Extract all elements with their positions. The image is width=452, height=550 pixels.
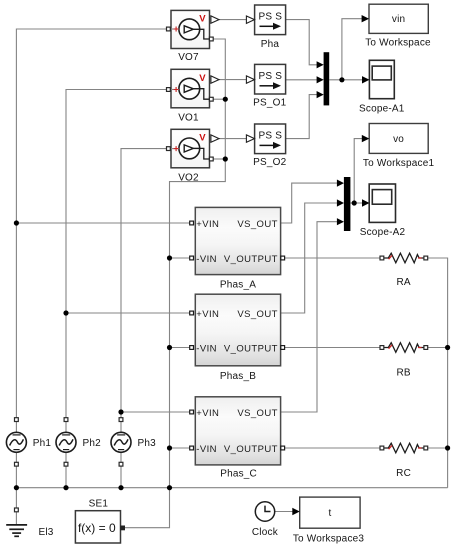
svg-text:Ph2: Ph2 <box>83 438 102 449</box>
PS-Simulink converter Pha <box>246 5 285 35</box>
wire Phas_A -VIN <box>170 257 190 259</box>
wire Phas_B -VIN <box>170 347 190 349</box>
To Workspace vin <box>362 4 429 33</box>
PS-Simulink converter PS_O2 <box>246 124 285 154</box>
wire VO7 to Pha <box>219 19 246 21</box>
wire branch to vin To Workspace <box>342 19 362 80</box>
svg-text:V_OUTPUT: V_OUTPUT <box>224 254 278 265</box>
wire VO1 to PS_O1 <box>219 79 246 81</box>
svg-text:PS_O2: PS_O2 <box>253 157 286 168</box>
wire VO2 to PS_O2 <box>219 138 246 140</box>
junction node Ph1 ground <box>14 485 19 490</box>
wire Mux1 output to Scope-A1 <box>329 79 362 81</box>
svg-text:+VIN: +VIN <box>196 309 219 320</box>
wire VO2 bottom port to negative bus <box>213 158 225 160</box>
wire VO2 input from node C vertical <box>121 149 167 418</box>
svg-text:PS S: PS S <box>259 71 283 82</box>
wire Phas_C -VIN <box>170 447 190 449</box>
svg-text:To Workspace1: To Workspace1 <box>363 158 435 169</box>
svg-text:Scope-A2: Scope-A2 <box>360 227 406 238</box>
ground El3 <box>6 508 27 536</box>
junction node Phas_B +VIN <box>63 310 68 315</box>
svg-text:PS_O1: PS_O1 <box>253 98 286 109</box>
wire Phas_C V_OUTPUT to RC <box>285 447 381 449</box>
AC source Ph2 <box>56 418 76 466</box>
svg-text:VO7: VO7 <box>178 52 199 63</box>
wire VO7 input from node A vertical <box>16 29 166 418</box>
svg-text:RA: RA <box>396 277 410 288</box>
svg-text:-VIN: -VIN <box>196 254 217 265</box>
svg-text:+VIN: +VIN <box>196 408 219 419</box>
voltage sensor VO7 <box>167 10 220 48</box>
svg-text:V_OUTPUT: V_OUTPUT <box>224 444 278 455</box>
mux Mux2 <box>337 177 351 231</box>
wire Phas_B VS_OUT to Mux2 input 2 <box>281 203 338 313</box>
svg-text:VS_OUT: VS_OUT <box>237 309 277 320</box>
junction node Phas_A -VIN <box>167 255 172 260</box>
svg-text:To Workspace3: To Workspace3 <box>293 534 365 545</box>
subsystem Phas_C <box>190 397 285 465</box>
AC source Ph1 <box>6 418 26 466</box>
mux Mux1 <box>317 52 330 105</box>
svg-text:t: t <box>329 508 332 519</box>
PS-Simulink converter PS_O1 <box>246 64 285 94</box>
svg-text:V: V <box>199 14 206 25</box>
svg-text:Scope-A1: Scope-A1 <box>359 104 405 115</box>
svg-text:Phas_B: Phas_B <box>220 371 256 382</box>
svg-text:Phas_A: Phas_A <box>220 280 256 291</box>
wire Phas_A +VIN <box>16 222 189 224</box>
svg-text:PS S: PS S <box>259 131 283 142</box>
To Workspace1 vo <box>362 124 428 154</box>
junction node negative bus ground bus crossing <box>167 485 172 490</box>
svg-text:VS_OUT: VS_OUT <box>237 408 277 419</box>
svg-text:SE1: SE1 <box>89 499 109 510</box>
wire Phas_B +VIN <box>66 312 190 314</box>
voltage sensor VO2 <box>167 129 220 168</box>
junction node Ph2 ground <box>63 485 68 490</box>
junction node RC right <box>445 445 450 450</box>
svg-text:V: V <box>199 73 206 84</box>
junction node Phas_B -VIN <box>167 345 172 350</box>
wire Mux2 output to Scope-A2 <box>350 202 362 204</box>
scope Scope-A2 <box>362 184 396 222</box>
voltage sensor VO1 <box>167 69 220 108</box>
wire Phas_A V_OUTPUT to RA <box>285 257 381 259</box>
svg-text:-VIN: -VIN <box>196 444 217 455</box>
wire branch to vo To Workspace1 <box>354 139 362 203</box>
wire PS_O1 to Mux1 input 2 <box>286 79 317 81</box>
wire VO1 input from node B vertical <box>66 90 167 418</box>
svg-text:vo: vo <box>393 134 404 145</box>
junction node Ph3 ground <box>118 485 123 490</box>
wire Ph1 bottom to ground bus <box>15 466 17 488</box>
junction node mux1 output branch <box>339 77 344 82</box>
wire PS_O2 to Mux1 input 3 <box>286 95 317 139</box>
svg-text:RC: RC <box>396 468 411 479</box>
subsystem Phas_A <box>190 207 285 274</box>
svg-text:-VIN: -VIN <box>196 343 217 354</box>
wire Phas_C VS_OUT to Mux2 input 3 <box>281 222 338 412</box>
wire ground port to ground symbol <box>15 512 17 525</box>
resistor RB <box>380 343 428 353</box>
svg-text:V_OUTPUT: V_OUTPUT <box>224 343 278 354</box>
wire Ph3 bottom to ground bus <box>120 466 122 488</box>
svg-text:Phas_C: Phas_C <box>220 469 257 480</box>
To Workspace3 t <box>292 497 360 528</box>
wire Phas_A VS_OUT to Mux2 input 1 <box>281 183 338 223</box>
junction node Phas_C +VIN <box>118 409 123 414</box>
junction node mux2 output branch <box>352 200 357 205</box>
clock Clock <box>255 502 274 521</box>
svg-text:f(x) = 0: f(x) = 0 <box>78 521 116 535</box>
svg-text:VO2: VO2 <box>178 173 199 184</box>
svg-text:V: V <box>199 133 206 144</box>
junction node Phas_A +VIN <box>14 220 19 225</box>
svg-text:+VIN: +VIN <box>196 219 219 230</box>
scope Scope-A1 <box>362 60 394 98</box>
svg-text:Clock: Clock <box>252 527 279 538</box>
junction node VO2 bottom <box>223 156 228 161</box>
svg-text:Pha: Pha <box>261 39 280 50</box>
wire negative bus from VO7 bottom to SE1 <box>125 39 226 528</box>
svg-text:Ph3: Ph3 <box>138 438 157 449</box>
wire Phas_B V_OUTPUT to RB <box>285 347 381 349</box>
svg-text:PS S: PS S <box>259 12 283 23</box>
junction node VO1 bottom <box>223 97 228 102</box>
wire ground bus <box>16 487 447 489</box>
wire Pha to Mux1 input 1 <box>286 20 317 65</box>
svg-text:Ph1: Ph1 <box>33 438 52 449</box>
svg-text:VO1: VO1 <box>178 113 199 124</box>
junction node negative bus at ground bus <box>167 445 172 450</box>
junction node RB right <box>445 345 450 350</box>
wire Phas_C +VIN <box>121 411 190 413</box>
wire Clock to To Workspace3 <box>275 511 293 513</box>
wire ground bus to ground El3 <box>15 488 17 508</box>
svg-text:El3: El3 <box>39 527 54 538</box>
svg-text:VS_OUT: VS_OUT <box>237 219 277 230</box>
solver configuration SE1 <box>75 511 124 543</box>
svg-text:To Workspace: To Workspace <box>365 38 431 49</box>
svg-text:vin: vin <box>392 14 405 25</box>
svg-text:RB: RB <box>396 368 410 379</box>
wire VO1 bottom port to negative bus <box>213 98 225 100</box>
AC source Ph3 <box>111 418 131 466</box>
wire Ph2 bottom to ground bus <box>65 466 67 488</box>
wire RB to right bus <box>428 347 448 349</box>
resistor RA <box>380 253 428 263</box>
resistor RC <box>380 443 428 453</box>
wire RC to right bus <box>428 447 448 449</box>
subsystem Phas_B <box>190 294 285 366</box>
wire RA to right bus <box>428 258 448 488</box>
